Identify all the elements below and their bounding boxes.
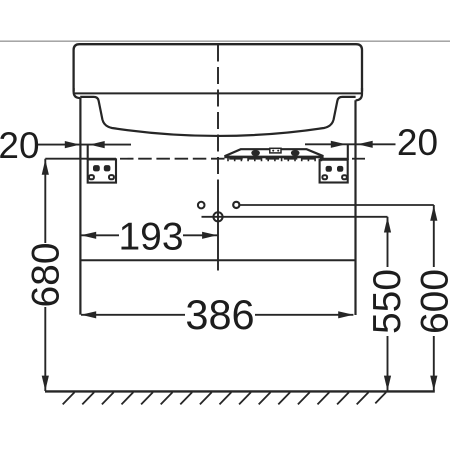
svg-text:193: 193: [118, 215, 183, 258]
svg-text:20: 20: [0, 125, 40, 166]
svg-text:550: 550: [366, 269, 409, 334]
svg-text:680: 680: [24, 242, 67, 307]
svg-text:386: 386: [185, 291, 254, 338]
svg-text:20: 20: [397, 122, 438, 163]
svg-text:600: 600: [414, 269, 450, 334]
